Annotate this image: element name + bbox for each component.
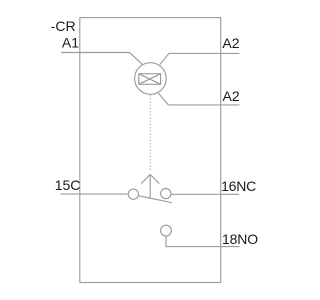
contact 15C (common pivot) [128,189,138,199]
wire A2 bottom [158,93,239,105]
contact 18NO [161,225,172,236]
svg-text:-CR: -CR [51,18,76,34]
svg-text:A2: A2 [223,88,240,104]
wire A1 [61,53,143,65]
wire 18NO [166,236,240,247]
wire A2 top [160,53,240,64]
svg-text:18NO: 18NO [222,231,258,247]
coil envelope symbol [139,74,161,85]
moving contact blade [138,196,172,203]
svg-text:A1: A1 [62,35,79,51]
contact 16NC [161,189,171,199]
actuation link (dotted) [149,95,151,170]
svg-text:15C: 15C [55,177,81,193]
actuator arrow [141,174,159,198]
svg-text:A2: A2 [222,35,239,51]
wire 15C [61,193,129,195]
svg-text:16NC: 16NC [221,178,256,194]
relay coil CR (circle) [135,63,167,95]
wire 16NC [171,193,239,195]
